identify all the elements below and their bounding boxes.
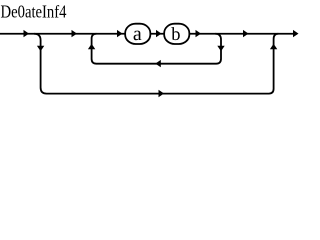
svg-text:a: a: [133, 23, 142, 45]
svg-text:De0ateInf4: De0ateInf4: [1, 1, 67, 21]
svg-text:b: b: [171, 25, 180, 45]
